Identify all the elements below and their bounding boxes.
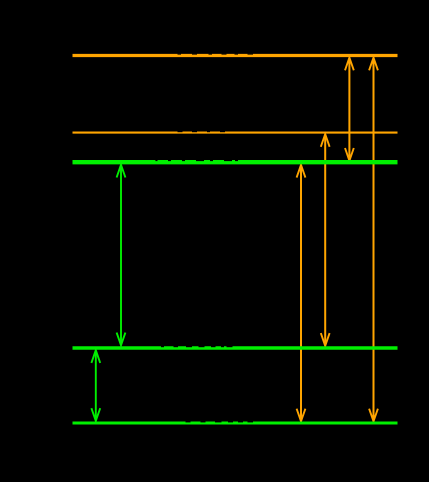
energy level E4b (thin orange level line) [73,132,398,134]
label overlap nicks on level E4 [178,54,254,55]
transition arrow G1 (green, level E3 to level E2) shaft [120,165,122,345]
transition arrow OB up arrowhead [321,134,330,147]
transition arrow OD up arrowhead [369,58,378,71]
transition arrow OC up arrowhead [345,58,354,71]
transition arrow OB (orange, level E4b to level E2) shaft [324,134,326,345]
transition arrow G2 down arrowhead [91,408,100,421]
label overlap nicks on level E1 [186,421,254,422]
transition arrow OD (orange, level E4 to ground) shaft [373,58,375,421]
energy level E2 (middle green level line) [73,346,398,350]
energy level E1 ground (bottom green level line) [73,422,398,425]
label overlap nicks on level E2 [161,346,233,347]
transition arrow OA up arrowhead [297,165,306,178]
transition arrow OC (orange, level E4 to level E3) shaft [348,58,350,160]
transition arrow OA down arrowhead [297,409,306,422]
label overlap nicks on level E4b [178,130,226,133]
transition arrow OC down arrowhead [345,148,354,161]
label overlap nicks on level E3 [155,160,238,161]
transition arrow OD down arrowhead [369,409,378,422]
transition arrow G1 up arrowhead [117,165,126,178]
transition arrow G2 (green, level E2 to ground) shaft [95,351,97,421]
energy level E4 (top orange level line) [73,54,398,57]
transition arrow OA (orange, level E3 to ground) shaft [300,165,302,421]
energy level E3 (thick green level line) [73,160,398,164]
transition arrow G1 down arrowhead [117,333,126,346]
transition arrow OB down arrowhead [321,333,330,346]
transition arrow G2 up arrowhead [91,350,100,363]
